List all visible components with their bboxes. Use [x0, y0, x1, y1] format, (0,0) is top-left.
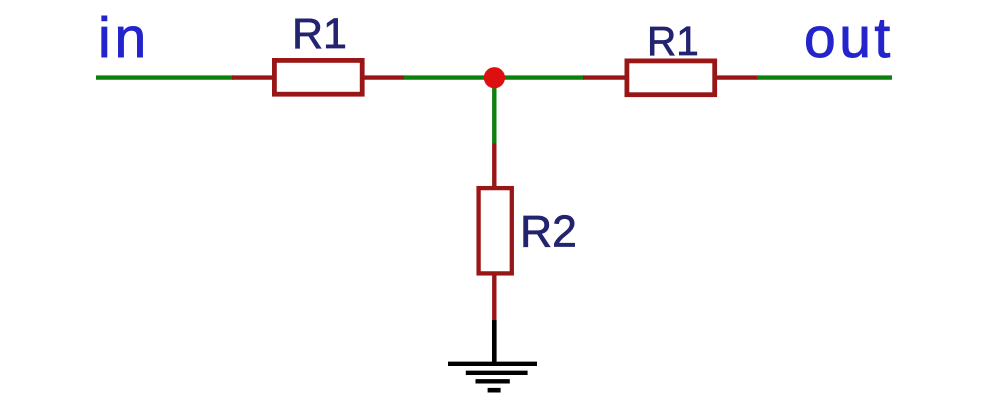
wire	[96, 75, 233, 79]
resistor R2	[479, 188, 512, 273]
junction node	[484, 67, 505, 88]
resistor R1	[274, 60, 362, 94]
svg-text:R2: R2	[520, 208, 577, 257]
wire	[715, 75, 758, 79]
wire	[492, 144, 496, 189]
svg-text:R1: R1	[647, 18, 699, 64]
svg-text:in: in	[98, 6, 150, 70]
wire	[364, 75, 404, 79]
svg-text:out: out	[804, 6, 894, 70]
wire	[494, 75, 584, 79]
wire	[232, 75, 274, 79]
wire	[583, 75, 627, 79]
wire	[404, 75, 494, 79]
wire	[757, 75, 892, 79]
wire	[492, 78, 496, 144]
svg-text:R1: R1	[292, 10, 347, 58]
wire	[492, 274, 496, 321]
wire	[492, 320, 497, 363]
resistor R1	[627, 61, 715, 95]
ground	[448, 364, 537, 390]
